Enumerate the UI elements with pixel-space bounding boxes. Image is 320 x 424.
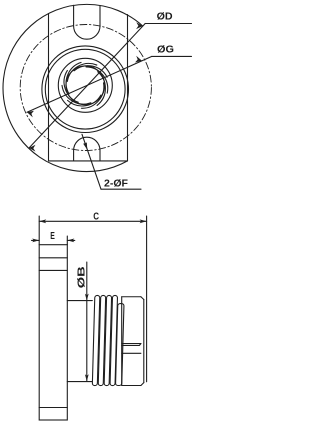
- bellows coil group (slight lean): [92, 295, 124, 385]
- pitch circle G (dash-dot): [20, 25, 151, 151]
- arrow B bottom: [85, 374, 89, 381]
- cap chamfer bottom: [141, 383, 144, 386]
- extension line C left: [38, 216, 40, 245]
- right flat edge: [127, 15, 129, 161]
- flange step line bottom: [39, 407, 67, 409]
- arrow G upper: [135, 56, 142, 63]
- arrow E right: [67, 239, 74, 243]
- extension line C right: [146, 216, 148, 382]
- leader line F: [82, 134, 101, 189]
- leader D horizontal: [145, 23, 191, 25]
- leader G horizontal: [152, 55, 192, 57]
- leader F horizontal: [101, 188, 141, 190]
- svg-text:E: E: [50, 230, 55, 242]
- bellows loop 5 short: [116, 304, 124, 386]
- svg-text:ØD: ØD: [157, 11, 173, 23]
- cap right edge: [143, 300, 145, 383]
- flange step line top 1: [39, 257, 67, 259]
- bore circle: [66, 66, 105, 105]
- svg-text:ØG: ØG: [157, 43, 174, 55]
- body neck bottom line: [67, 381, 92, 383]
- bottom chord: [49, 160, 128, 162]
- dimension line E right tail: [67, 239, 75, 241]
- arrow C right: [140, 219, 147, 223]
- slot line mid: [122, 344, 140, 346]
- inner circle ring 2: [45, 49, 125, 129]
- slot bevel: [139, 344, 141, 346]
- bellows loop 3: [104, 295, 112, 385]
- svg-text:ØB: ØB: [76, 266, 88, 289]
- slot line top: [122, 343, 141, 345]
- flange rect (side view): [39, 245, 67, 420]
- arrow E left: [32, 239, 39, 243]
- spring seat circle: [58, 58, 112, 112]
- extension line E right: [66, 236, 68, 245]
- cap bottom edge: [122, 385, 141, 387]
- bellows loop 1: [92, 295, 100, 385]
- leader line D: [29, 24, 145, 149]
- arrow D upper: [136, 22, 143, 29]
- bellows loop 4: [110, 295, 118, 385]
- spring coil arcs (end view): [62, 62, 108, 108]
- arrow C left: [39, 219, 46, 223]
- svg-text:2-ØF: 2-ØF: [104, 178, 129, 190]
- flange outer circle OD (top view): [3, 4, 143, 171]
- cap top edge: [122, 296, 141, 298]
- dimension line B vertical: [86, 262, 88, 381]
- bottom notch slot F: [74, 137, 100, 161]
- slot line bottom: [122, 352, 141, 354]
- arrow G lower: [27, 111, 34, 118]
- left flat edge: [48, 14, 50, 161]
- flange step line top 2: [39, 269, 67, 271]
- dimension line E left tail: [32, 239, 40, 241]
- svg-text:C: C: [93, 210, 99, 222]
- bellows loop 2: [98, 295, 106, 385]
- cap left edge: [121, 297, 123, 386]
- arrow B top: [85, 294, 89, 301]
- arrow D lower: [29, 145, 36, 152]
- dimension line C: [39, 220, 146, 222]
- inner circle ring 1: [42, 46, 129, 133]
- arrow F: [83, 143, 87, 150]
- top notch slot F: [74, 5, 100, 39]
- cap chamfer top: [141, 297, 144, 300]
- body neck top line: [67, 300, 92, 302]
- leader line G: [27, 56, 152, 112]
